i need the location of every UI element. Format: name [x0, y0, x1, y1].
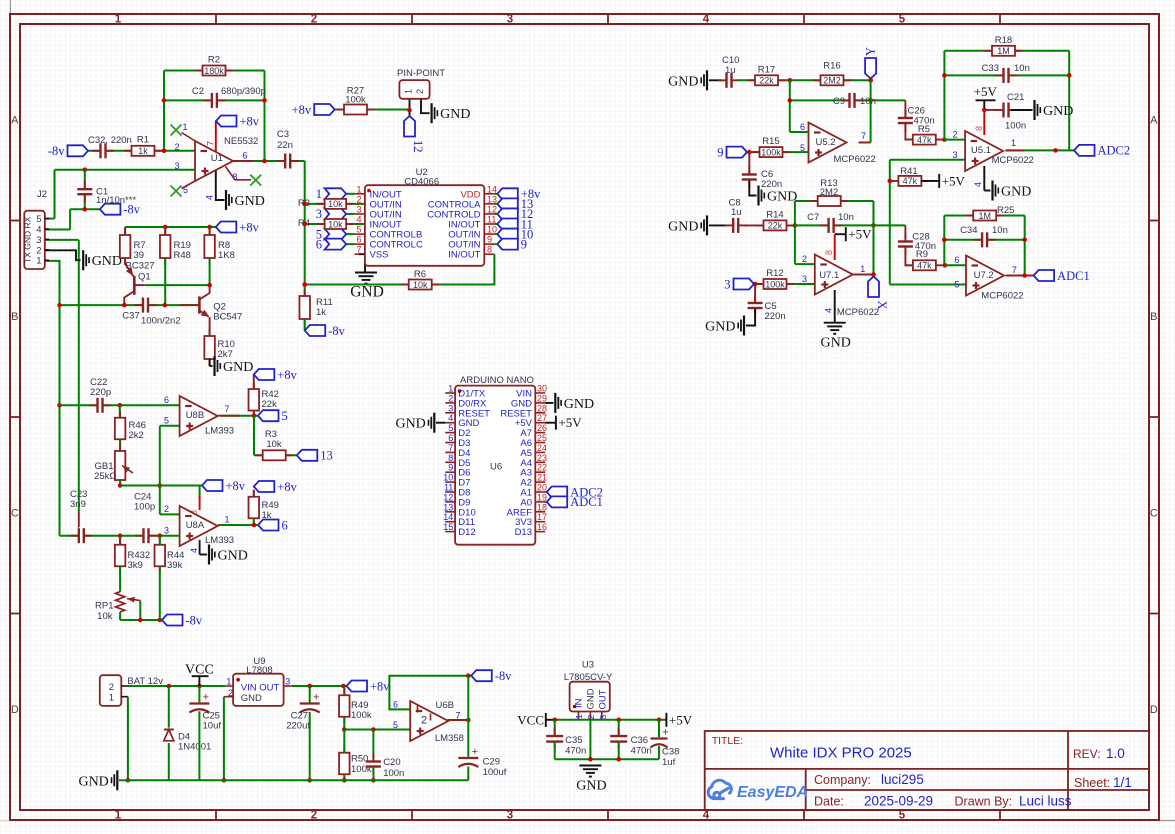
- svg-text:5: 5: [448, 423, 453, 433]
- svg-text:U7.2: U7.2: [974, 270, 994, 281]
- svg-text:MCP6022: MCP6022: [837, 307, 879, 318]
- svg-text:R17: R17: [758, 64, 775, 75]
- svg-text:100n: 100n: [1005, 121, 1026, 132]
- svg-text:3k9: 3k9: [128, 560, 143, 571]
- svg-text:7: 7: [448, 443, 453, 453]
- svg-text:+: +: [662, 727, 668, 739]
- svg-text:OUT: OUT: [598, 689, 609, 709]
- svg-text:7: 7: [356, 245, 361, 255]
- svg-text:MCP6022: MCP6022: [834, 154, 876, 165]
- svg-text:5: 5: [36, 214, 41, 225]
- svg-text:8: 8: [448, 453, 453, 463]
- svg-text:13: 13: [443, 502, 453, 512]
- svg-text:6: 6: [356, 235, 361, 245]
- svg-text:2: 2: [586, 715, 596, 720]
- svg-text:9: 9: [717, 145, 723, 159]
- svg-text:+8v: +8v: [370, 679, 390, 693]
- svg-text:2025-09-29: 2025-09-29: [864, 794, 933, 809]
- svg-text:White IDX PRO 2025: White IDX PRO 2025: [770, 745, 912, 762]
- svg-text:-8v: -8v: [328, 324, 345, 338]
- svg-text:100uf: 100uf: [483, 767, 507, 778]
- svg-text:R9: R9: [916, 249, 928, 260]
- svg-text:2: 2: [109, 682, 114, 693]
- svg-text:C29: C29: [483, 757, 500, 768]
- svg-text:IN: IN: [574, 698, 585, 708]
- svg-text:4: 4: [703, 13, 710, 25]
- svg-text:2: 2: [421, 715, 427, 727]
- svg-text:C33: C33: [982, 63, 999, 74]
- svg-text:1: 1: [183, 122, 188, 132]
- svg-text:+: +: [313, 692, 319, 704]
- svg-text:2: 2: [174, 142, 179, 152]
- svg-text:U5.1: U5.1: [971, 145, 991, 156]
- svg-text:1k: 1k: [138, 146, 148, 156]
- svg-text:3n9: 3n9: [70, 499, 86, 510]
- svg-text:39k: 39k: [167, 560, 183, 571]
- svg-text:6: 6: [243, 151, 248, 161]
- svg-text:VSS: VSS: [370, 250, 389, 261]
- svg-text:22k: 22k: [262, 399, 278, 410]
- svg-text:12: 12: [411, 140, 425, 153]
- svg-text:GND: GND: [668, 219, 698, 234]
- svg-text:GND: GND: [1043, 104, 1073, 119]
- svg-text:17: 17: [537, 512, 547, 522]
- svg-text:10uf: 10uf: [203, 721, 222, 732]
- svg-text:RP1: RP1: [95, 601, 113, 612]
- svg-text:23: 23: [537, 453, 547, 463]
- svg-text:C7: C7: [807, 212, 819, 223]
- svg-text:+5V: +5V: [669, 712, 693, 727]
- svg-text:U1: U1: [211, 153, 223, 164]
- svg-text:220p: 220p: [90, 387, 111, 398]
- svg-text:1: 1: [225, 515, 230, 525]
- svg-text:GND: GND: [218, 549, 248, 564]
- svg-text:1: 1: [226, 677, 231, 687]
- svg-text:2: 2: [802, 254, 807, 264]
- svg-text:+8v: +8v: [277, 368, 297, 382]
- svg-text:100k: 100k: [345, 95, 366, 106]
- svg-text:R15: R15: [762, 136, 779, 147]
- svg-text:GND: GND: [92, 254, 122, 269]
- svg-text:100n: 100n: [383, 768, 404, 779]
- svg-text:Sheet:: Sheet:: [1074, 776, 1110, 790]
- svg-text:TITLE:: TITLE:: [712, 735, 744, 747]
- svg-text:1: 1: [404, 89, 414, 94]
- svg-text:C20: C20: [383, 757, 400, 768]
- svg-text:100n/2n2: 100n/2n2: [141, 316, 181, 327]
- svg-text:8: 8: [487, 245, 492, 255]
- svg-text:100k: 100k: [761, 147, 781, 157]
- svg-text:Q1: Q1: [138, 272, 151, 283]
- svg-text:A: A: [1150, 115, 1158, 127]
- svg-text:R16: R16: [823, 61, 840, 72]
- svg-text:24: 24: [537, 443, 547, 453]
- svg-text:100k: 100k: [351, 710, 372, 721]
- svg-text:47k: 47k: [917, 261, 932, 271]
- svg-text:R12: R12: [766, 268, 783, 279]
- svg-text:220n: 220n: [761, 179, 782, 190]
- svg-text:470n: 470n: [565, 746, 586, 757]
- svg-text:D12: D12: [458, 527, 475, 538]
- svg-text:U7.1: U7.1: [819, 270, 839, 281]
- svg-text:26: 26: [537, 423, 547, 433]
- svg-text:1: 1: [316, 187, 322, 201]
- svg-text:680p/390p: 680p/390p: [221, 86, 266, 97]
- svg-text:D: D: [1150, 704, 1158, 716]
- svg-text:6: 6: [448, 433, 453, 443]
- svg-text:GND: GND: [564, 397, 594, 412]
- svg-text:6: 6: [316, 237, 322, 251]
- svg-text:10k: 10k: [413, 280, 428, 290]
- svg-text:28: 28: [537, 403, 547, 413]
- svg-text:ADC2: ADC2: [1098, 144, 1131, 158]
- svg-text:GND: GND: [440, 107, 470, 122]
- svg-text:8: 8: [974, 126, 984, 131]
- svg-text:47k: 47k: [903, 176, 918, 186]
- svg-text:4: 4: [189, 548, 199, 553]
- svg-text:100p: 100p: [134, 502, 155, 513]
- svg-text:11: 11: [444, 483, 453, 493]
- svg-text:R14: R14: [766, 209, 783, 220]
- svg-text:Date:: Date:: [814, 795, 844, 809]
- svg-text:29: 29: [537, 393, 547, 403]
- svg-text:5: 5: [899, 13, 906, 25]
- svg-text:Company:: Company:: [814, 773, 871, 787]
- svg-text:22k: 22k: [759, 76, 774, 86]
- svg-text:1u: 1u: [725, 65, 736, 76]
- svg-text:5: 5: [899, 809, 906, 821]
- svg-text:GND: GND: [1001, 185, 1031, 200]
- svg-text:3: 3: [724, 277, 730, 291]
- svg-text:9: 9: [487, 235, 492, 245]
- svg-text:-8v: -8v: [495, 669, 512, 683]
- svg-text:VCC: VCC: [517, 713, 544, 728]
- svg-text:4: 4: [973, 182, 983, 187]
- svg-text:9: 9: [521, 237, 527, 251]
- svg-text:3: 3: [448, 403, 453, 413]
- svg-text:1N4001: 1N4001: [178, 742, 211, 753]
- svg-text:VIN OUT: VIN OUT: [241, 683, 280, 694]
- svg-text:LM393: LM393: [205, 535, 234, 546]
- svg-text:U5.2: U5.2: [816, 137, 836, 148]
- svg-text:Drawn By:: Drawn By:: [955, 795, 1013, 809]
- svg-text:6: 6: [800, 122, 805, 132]
- svg-text:6: 6: [393, 700, 398, 710]
- svg-text:GND: GND: [705, 320, 735, 335]
- svg-text:C21: C21: [1007, 92, 1024, 103]
- svg-text:2: 2: [311, 809, 317, 821]
- svg-text:C: C: [1150, 508, 1158, 520]
- svg-text:A: A: [11, 115, 19, 127]
- svg-text:1M: 1M: [997, 46, 1010, 56]
- svg-text:30: 30: [537, 384, 547, 394]
- svg-text:180k: 180k: [204, 66, 224, 76]
- svg-text:5: 5: [954, 280, 959, 290]
- svg-text:10n: 10n: [992, 225, 1008, 236]
- svg-text:1K8: 1K8: [218, 250, 235, 261]
- svg-text:21: 21: [537, 473, 547, 483]
- svg-text:15: 15: [443, 522, 453, 532]
- svg-text:22: 22: [537, 463, 547, 473]
- svg-text:2M2: 2M2: [820, 187, 838, 198]
- svg-text:B: B: [11, 311, 18, 323]
- svg-text:GND: GND: [241, 693, 262, 704]
- svg-text:TX GND RX: TX GND RX: [23, 216, 33, 263]
- svg-text:1: 1: [115, 809, 122, 821]
- svg-text:C34: C34: [960, 225, 977, 236]
- svg-text:R48: R48: [174, 250, 191, 261]
- svg-text:13: 13: [320, 449, 333, 463]
- svg-text:5: 5: [164, 416, 169, 426]
- svg-text:2: 2: [952, 130, 957, 140]
- svg-text:6: 6: [954, 255, 959, 265]
- svg-text:+: +: [203, 692, 209, 704]
- svg-text:NE5532: NE5532: [224, 136, 258, 147]
- svg-text:Luci luss: Luci luss: [1019, 794, 1072, 809]
- svg-text:C38: C38: [662, 747, 679, 758]
- svg-text:ARDUINO NANO: ARDUINO NANO: [460, 375, 534, 386]
- svg-text:4: 4: [824, 308, 834, 313]
- svg-text:3: 3: [285, 677, 290, 687]
- svg-text:ADC1: ADC1: [1057, 269, 1090, 283]
- svg-text:C35: C35: [565, 735, 582, 746]
- svg-text:22n: 22n: [277, 140, 293, 151]
- svg-text:4: 4: [448, 413, 453, 423]
- svg-text:10n: 10n: [838, 212, 854, 223]
- svg-text:10k: 10k: [97, 611, 113, 622]
- svg-text:GND: GND: [767, 190, 797, 205]
- svg-text:1uf: 1uf: [662, 757, 676, 768]
- svg-text:7: 7: [456, 711, 461, 721]
- svg-text:C2: C2: [192, 86, 204, 97]
- svg-text:14: 14: [443, 512, 453, 522]
- svg-text:C32, 220n: C32, 220n: [88, 135, 132, 146]
- svg-text:+8v: +8v: [240, 114, 260, 128]
- svg-text:IN/OUT: IN/OUT: [448, 250, 480, 261]
- svg-text:C3: C3: [277, 129, 289, 140]
- svg-text:luci295: luci295: [881, 772, 924, 787]
- svg-text:U8A: U8A: [186, 520, 205, 531]
- svg-text:-8v: -8v: [123, 203, 140, 217]
- svg-text:8: 8: [824, 250, 834, 255]
- svg-text:C36: C36: [631, 735, 648, 746]
- svg-text:25: 25: [537, 433, 547, 443]
- svg-text:470n: 470n: [631, 746, 652, 757]
- svg-text:3: 3: [356, 204, 361, 214]
- svg-text:7: 7: [206, 141, 216, 146]
- svg-text:R2: R2: [208, 55, 220, 66]
- svg-text:GND: GND: [668, 74, 698, 89]
- svg-text:+8v: +8v: [277, 480, 297, 494]
- svg-text:1: 1: [860, 264, 865, 274]
- svg-text:1: 1: [356, 184, 361, 194]
- svg-text:3: 3: [164, 526, 169, 536]
- svg-text:10n: 10n: [1014, 63, 1030, 74]
- svg-text:PIN-POINT: PIN-POINT: [397, 68, 445, 79]
- svg-text:3: 3: [507, 809, 513, 821]
- svg-text:GND: GND: [223, 360, 253, 375]
- svg-text:7: 7: [1012, 265, 1017, 275]
- svg-text:LM393: LM393: [205, 426, 234, 437]
- svg-text:3: 3: [952, 150, 957, 160]
- svg-text:+5V: +5V: [848, 227, 872, 242]
- svg-text:2M2: 2M2: [823, 76, 841, 86]
- svg-text:D: D: [11, 704, 19, 716]
- svg-text:GND: GND: [821, 336, 851, 351]
- svg-text:+8v: +8v: [226, 479, 246, 493]
- svg-text:Y: Y: [864, 47, 878, 56]
- svg-text:+8v: +8v: [292, 103, 312, 117]
- svg-text:U8B: U8B: [186, 410, 204, 421]
- svg-text:REV:: REV:: [1073, 747, 1101, 761]
- svg-text:18: 18: [537, 502, 547, 512]
- svg-text:R25: R25: [997, 205, 1014, 216]
- svg-text:+: +: [472, 746, 478, 758]
- svg-text:10k: 10k: [328, 199, 343, 209]
- svg-text:R5: R5: [918, 124, 930, 135]
- svg-text:MCP6022: MCP6022: [992, 155, 1034, 166]
- svg-text:R41: R41: [900, 166, 917, 177]
- svg-text:L7805CV-Y: L7805CV-Y: [564, 672, 613, 683]
- svg-text:+5V: +5V: [942, 173, 966, 188]
- svg-text:5: 5: [282, 409, 288, 423]
- svg-text:ADC1: ADC1: [570, 495, 603, 509]
- svg-text:3: 3: [316, 207, 322, 221]
- svg-text:16: 16: [537, 522, 547, 532]
- svg-text:25kΩ: 25kΩ: [94, 471, 116, 482]
- svg-text:4: 4: [205, 195, 215, 200]
- svg-text:2: 2: [311, 13, 317, 25]
- svg-text:22k: 22k: [768, 221, 783, 231]
- svg-text:7: 7: [225, 404, 230, 414]
- svg-text:10k: 10k: [328, 219, 343, 229]
- svg-text:2k2: 2k2: [129, 430, 144, 441]
- svg-text:L7808: L7808: [246, 665, 272, 676]
- svg-text:1k: 1k: [316, 307, 326, 318]
- svg-text:1: 1: [1011, 138, 1016, 148]
- svg-text:+5V: +5V: [558, 415, 582, 430]
- svg-text:3: 3: [36, 235, 41, 246]
- svg-text:3: 3: [802, 274, 807, 284]
- svg-text:4: 4: [36, 225, 41, 236]
- svg-text:GND: GND: [576, 779, 606, 794]
- svg-text:GND: GND: [395, 417, 425, 432]
- svg-text:100k: 100k: [765, 279, 785, 289]
- svg-text:GND: GND: [586, 688, 597, 709]
- svg-text:U6: U6: [490, 462, 502, 473]
- svg-text:-8v: -8v: [48, 144, 65, 158]
- svg-text:10k: 10k: [266, 439, 282, 450]
- svg-text:1M: 1M: [978, 211, 991, 221]
- svg-text:5: 5: [356, 225, 361, 235]
- svg-text:6: 6: [164, 395, 169, 405]
- svg-text:U6B: U6B: [436, 700, 454, 711]
- svg-text:R6: R6: [414, 269, 426, 280]
- svg-text:5: 5: [393, 720, 398, 730]
- svg-text:1/1: 1/1: [1113, 775, 1132, 790]
- svg-text:D13: D13: [515, 527, 532, 538]
- svg-text:2k7: 2k7: [218, 349, 233, 360]
- svg-text:CD4066: CD4066: [404, 176, 439, 187]
- svg-text:27: 27: [537, 413, 547, 423]
- svg-text:3: 3: [598, 715, 608, 720]
- svg-text:C: C: [11, 508, 19, 520]
- svg-text:1u: 1u: [731, 207, 742, 218]
- svg-text:220uf: 220uf: [286, 721, 310, 732]
- svg-text:10: 10: [443, 473, 453, 483]
- svg-text:C37: C37: [122, 310, 139, 321]
- svg-text:-8v: -8v: [186, 613, 203, 627]
- svg-text:R1: R1: [137, 135, 149, 146]
- svg-text:X: X: [875, 301, 889, 310]
- svg-text:EasyEDA: EasyEDA: [737, 784, 808, 801]
- svg-text:B: B: [1150, 311, 1157, 323]
- svg-text:2: 2: [164, 504, 169, 514]
- svg-text:6: 6: [282, 518, 288, 532]
- svg-text:+5V: +5V: [974, 84, 998, 99]
- svg-text:4: 4: [703, 809, 710, 821]
- svg-text:39: 39: [134, 250, 145, 261]
- svg-text:220n: 220n: [765, 311, 786, 322]
- svg-text:1.0: 1.0: [1106, 746, 1125, 761]
- svg-text:3: 3: [507, 13, 513, 25]
- svg-text:47k: 47k: [917, 135, 932, 145]
- svg-text:GND: GND: [350, 284, 384, 301]
- svg-text:MCP6022: MCP6022: [981, 291, 1023, 302]
- svg-text:U3: U3: [582, 660, 594, 671]
- svg-text:R18: R18: [995, 35, 1012, 46]
- svg-text:+8v: +8v: [239, 220, 259, 234]
- svg-text:BC547: BC547: [213, 312, 242, 323]
- svg-text:10n: 10n: [860, 96, 876, 107]
- svg-text:J2: J2: [37, 189, 47, 200]
- svg-text:1: 1: [109, 693, 114, 704]
- svg-text:GND: GND: [235, 194, 265, 209]
- svg-text:7: 7: [861, 131, 866, 141]
- svg-text:1: 1: [448, 384, 453, 394]
- svg-text:C9: C9: [833, 96, 845, 107]
- svg-text:9: 9: [448, 463, 453, 473]
- svg-text:2: 2: [36, 245, 41, 256]
- svg-text:GND: GND: [78, 774, 108, 789]
- svg-text:12: 12: [443, 492, 453, 502]
- svg-text:1: 1: [574, 714, 584, 719]
- svg-text:2: 2: [415, 89, 425, 94]
- svg-text:2: 2: [448, 393, 453, 403]
- svg-text:1: 1: [115, 13, 122, 25]
- svg-text:LM358: LM358: [435, 733, 464, 744]
- svg-text:1: 1: [36, 256, 41, 267]
